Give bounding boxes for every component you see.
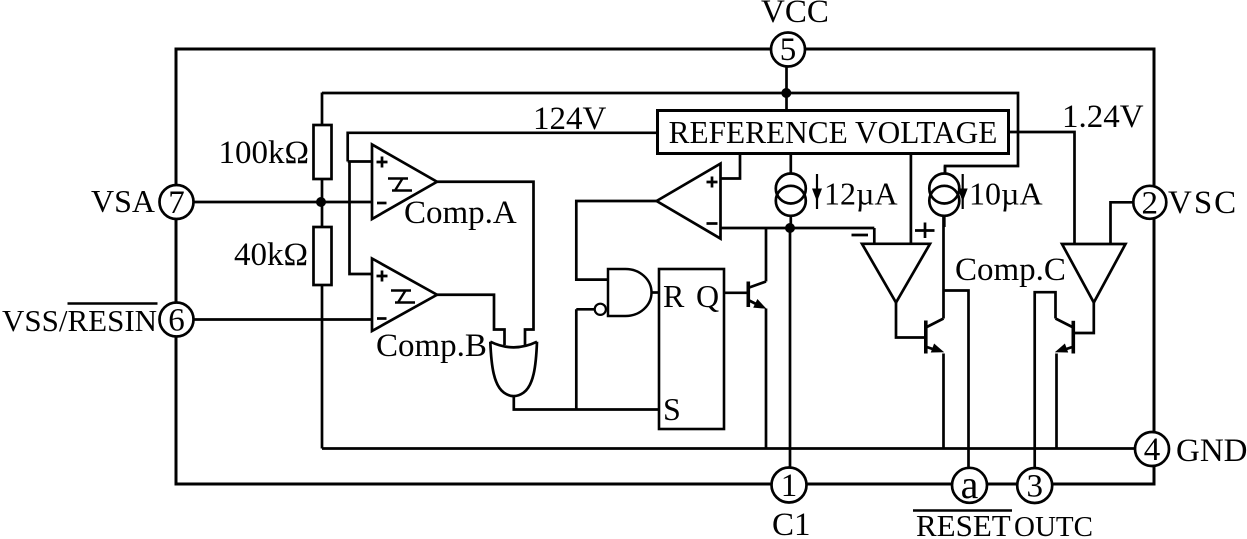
- svg-text:R: R: [663, 278, 685, 314]
- op-amp Comp.A: [372, 145, 437, 220]
- hysteresis symbol Comp.A: [388, 179, 412, 191]
- op-amp Comp.C: [1062, 244, 1126, 303]
- wire Comp.B output to OR gate: [437, 295, 505, 345]
- transistor Q1: [748, 282, 766, 309]
- inverter bubble on G2 input: [595, 304, 606, 315]
- minus sign Comp.A: [377, 202, 387, 205]
- arrow for I1 current direction: [812, 174, 822, 209]
- wire Q1 collector to C1 node: [765, 228, 768, 282]
- resistor R2 40k ohm: [314, 202, 332, 449]
- minus sign Comp.B: [377, 317, 387, 320]
- svg-text:VSC: VSC: [1168, 185, 1238, 221]
- wire Comp.A output to OR gate: [437, 182, 534, 345]
- current source I1 12uA: [776, 154, 806, 229]
- pin a RESET: [952, 462, 987, 507]
- wire Q3 emitter to ground rail: [1055, 354, 1058, 449]
- svg-text:OUTC: OUTC: [1014, 511, 1093, 539]
- svg-text:12µA: 12µA: [824, 176, 898, 212]
- svg-text:VSA: VSA: [91, 183, 155, 219]
- wire G2 inverted input from S line: [576, 309, 594, 409]
- transistor Q3: [1055, 319, 1074, 354]
- pin 6 VSS/RESIN: [160, 303, 194, 339]
- minus sign U4: [852, 234, 869, 237]
- wire Q2 emitter to ground rail: [942, 354, 945, 449]
- svg-text:1.24V: 1.24V: [1062, 99, 1144, 135]
- svg-text:Comp.B: Comp.B: [376, 328, 487, 364]
- svg-text:Comp.C: Comp.C: [955, 252, 1066, 288]
- svg-text:10µA: 10µA: [969, 176, 1043, 212]
- wire U4 output to Q2 base: [896, 303, 924, 338]
- svg-text:2: 2: [1142, 185, 1159, 221]
- svg-text:S: S: [663, 391, 681, 427]
- pin 2 VSC: [1133, 185, 1166, 221]
- pin 3 OUTC: [1017, 468, 1052, 505]
- RS latch U3: [659, 269, 724, 429]
- svg-text:REFERENCE VOLTAGE: REFERENCE VOLTAGE: [669, 115, 998, 150]
- svg-text:VCC: VCC: [761, 0, 829, 30]
- svg-text:4: 4: [1144, 432, 1161, 468]
- wire U2 plus input from reference: [721, 154, 741, 179]
- transistor Q2: [926, 319, 944, 354]
- svg-text:RESET: RESET: [916, 508, 1011, 539]
- wire pin6 VSS to Comp.B minus input: [194, 318, 373, 321]
- plus sign U4: [915, 223, 935, 239]
- wire Comp.C output to Q3 base: [1075, 303, 1094, 334]
- wire Q1 emitter to ground rail: [765, 309, 768, 449]
- label VSS/RESIN with overline: [2, 303, 158, 338]
- wire Comp.B plus input: [350, 162, 373, 275]
- svg-text:6: 6: [168, 303, 185, 339]
- arrow for I2 current direction: [958, 174, 968, 209]
- wire U2 output to AND gate: [576, 201, 656, 280]
- svg-text:7: 7: [168, 185, 185, 221]
- svg-text:Q: Q: [696, 278, 719, 314]
- resistor R1 100k ohm: [314, 93, 332, 203]
- svg-text:100kΩ: 100kΩ: [218, 135, 309, 171]
- wire Comp.A plus input: [348, 160, 372, 163]
- wire U2 minus input C1 node: [721, 227, 875, 230]
- wire 1.24V reference to Comp.C minus input: [1009, 132, 1075, 244]
- pin 5 VCC: [771, 32, 805, 68]
- minus sign U2: [707, 222, 718, 225]
- svg-text:GND: GND: [1176, 433, 1247, 469]
- svg-text:5: 5: [780, 32, 797, 68]
- junction dot C1 node: [785, 223, 795, 233]
- VCC rail (inner top): [322, 93, 1018, 174]
- wire pin2 VSC to Comp.C plus input: [1111, 202, 1135, 244]
- svg-text:a: a: [961, 462, 979, 507]
- plus sign Comp.A: [377, 157, 388, 168]
- label RESET with overline: [913, 508, 1012, 539]
- wire Q3 collector to pin 3: [1035, 292, 1056, 468]
- comparator U2 (left pointing): [657, 164, 721, 239]
- OR gate G1: [490, 342, 537, 396]
- wire G2 output to R input: [652, 291, 660, 294]
- pin 7 VSA: [160, 185, 194, 221]
- svg-text:3: 3: [1026, 469, 1043, 505]
- pin 1 C1: [772, 468, 807, 505]
- outer IC boundary box: [176, 49, 1154, 484]
- wire pin5 to reference box: [785, 67, 788, 111]
- current source I2 10uA: [929, 166, 959, 227]
- wire Q2 collector to I2 and pin a: [944, 216, 969, 469]
- wire pin7 VSA to Comp.A minus input: [194, 201, 373, 204]
- svg-text:1: 1: [781, 468, 798, 504]
- wire C1 node to pin 1: [789, 228, 792, 469]
- op-amp Comp.B: [372, 259, 437, 332]
- wire U4 plus input from reference: [910, 154, 913, 244]
- junction dot VCC node: [781, 88, 791, 98]
- wire U4 minus input: [873, 228, 876, 244]
- plus sign U2: [707, 177, 718, 188]
- plus sign Comp.B: [377, 271, 388, 282]
- comparator U4 (reset comparator): [862, 244, 930, 303]
- GND rail (inner bottom): [322, 447, 1136, 450]
- wire 124V reference line to Comp.A/Comp.B: [348, 133, 658, 162]
- wire Q output to Q1 base: [724, 291, 747, 294]
- AND gate G2 with inverted input: [608, 269, 652, 316]
- svg-text:40kΩ: 40kΩ: [234, 237, 308, 273]
- wire OR output to S input of latch: [514, 397, 659, 410]
- svg-text:VSS/RESIN: VSS/RESIN: [2, 303, 157, 338]
- svg-text:Comp.A: Comp.A: [404, 195, 517, 231]
- svg-text:124V: 124V: [533, 101, 607, 137]
- junction dot node VSA/divider: [316, 197, 326, 207]
- reference voltage block U1: [658, 111, 1009, 154]
- hysteresis symbol Comp.B: [391, 291, 415, 303]
- pin 4 GND: [1135, 432, 1169, 468]
- svg-text:C1: C1: [772, 507, 811, 539]
